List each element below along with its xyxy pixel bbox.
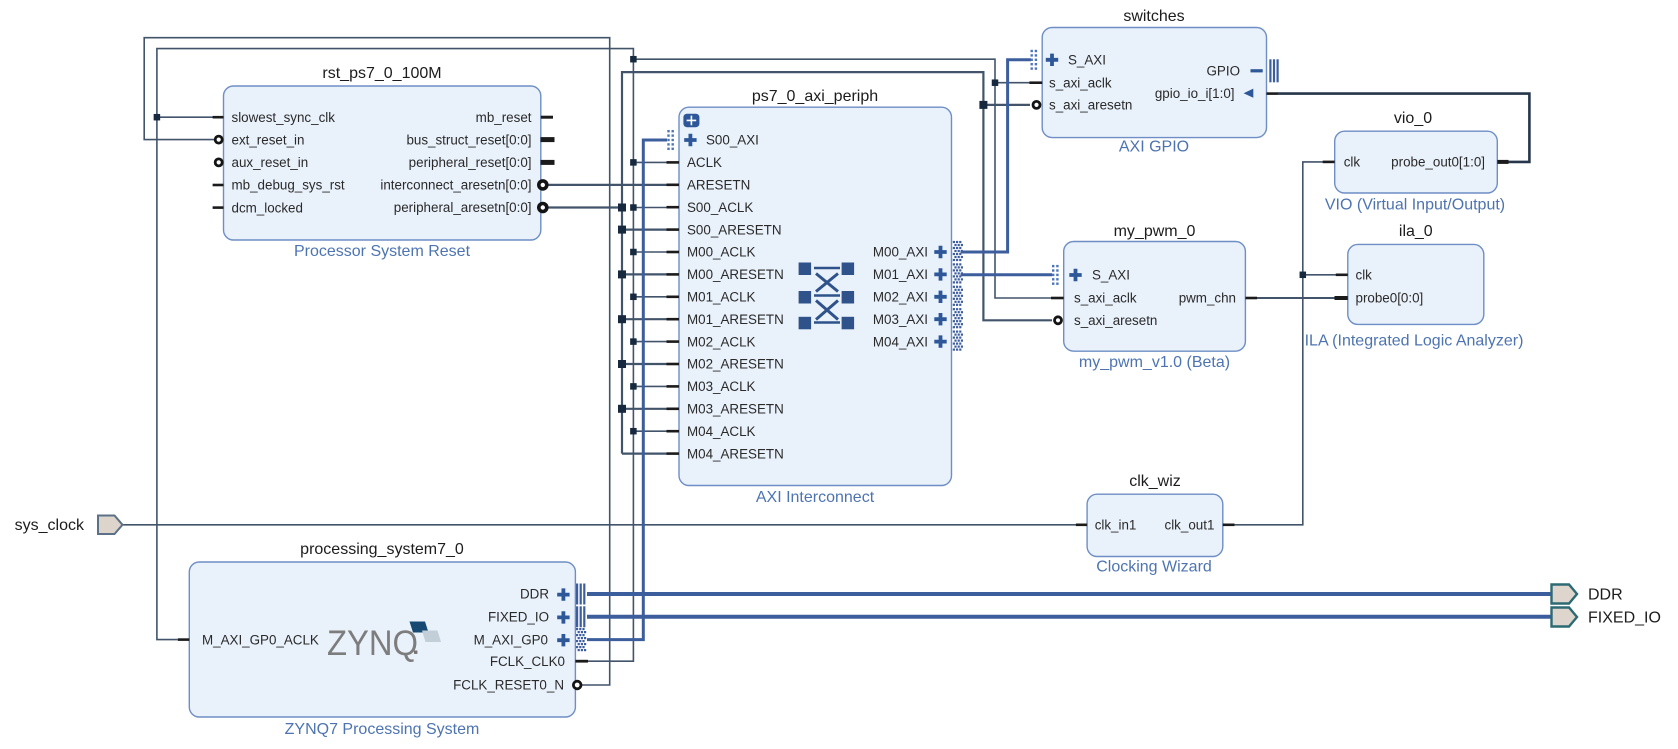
junction M01_ARESETN tap bbox=[618, 315, 626, 323]
port DDR bbox=[1552, 585, 1623, 604]
wire clock branch to M01_ACLK bbox=[633, 296, 667, 298]
svg-text:FCLK_CLK0: FCLK_CLK0 bbox=[490, 654, 565, 669]
wire peripheral_aresetn from rst pin to trunk bbox=[549, 206, 623, 208]
svg-text:S_AXI: S_AXI bbox=[1092, 268, 1130, 283]
wire FIXED_IO interface bus bbox=[587, 615, 1552, 619]
wire FCLK_RESET0_N to rst ext_reset_in bbox=[144, 38, 610, 685]
svg-text:probe0[0:0]: probe0[0:0] bbox=[1356, 291, 1424, 306]
svg-text:M00_ARESETN: M00_ARESETN bbox=[687, 267, 784, 282]
wire clock branch to S00_ACLK bbox=[633, 207, 667, 209]
wire peripheral_aresetn branch to M03_ARESETN bbox=[622, 408, 667, 410]
wire my_pwm pwm_chn to ila_0 probe0 bbox=[1256, 297, 1336, 299]
svg-text:clk: clk bbox=[1344, 155, 1361, 170]
wire clock net east branch to s_axi_aclk pins bbox=[633, 59, 1052, 298]
wire FCLK_CLK0 clock net trunk (FCLK_CLK0 to top-left channel, down to M_AXI_GP0_ACLK) bbox=[157, 49, 634, 662]
junction switches s_axi_aclk tap bbox=[992, 79, 999, 86]
svg-text:DDR: DDR bbox=[1588, 587, 1623, 604]
junction peripheral_aresetn entry bbox=[618, 204, 626, 212]
wire peripheral_aresetn branch to M01_ARESETN bbox=[622, 318, 667, 320]
svg-text:S00_AXI: S00_AXI bbox=[706, 133, 759, 148]
wire clk_wiz clk_out1 to vio_0 clk bbox=[1234, 162, 1323, 525]
wire clock branch to switches s_axi_aclk bbox=[995, 82, 1030, 84]
svg-text:M00_ACLK: M00_ACLK bbox=[687, 245, 756, 260]
junction M03_ARESETN tap bbox=[618, 405, 626, 413]
svg-text:M02_ARESETN: M02_ARESETN bbox=[687, 357, 784, 372]
junction switches s_axi_aresetn tap bbox=[979, 101, 987, 109]
wire peripheral_aresetn branch to switches s_axi_aresetn bbox=[983, 104, 1030, 106]
junction M00_ACLK tap bbox=[630, 249, 637, 256]
wire clock branch to rst slowest_sync_clk bbox=[157, 116, 213, 118]
svg-text:clk: clk bbox=[1356, 268, 1373, 283]
pin S_AXI bbox=[1069, 269, 1081, 281]
wire clock branch to M03_ACLK bbox=[633, 385, 667, 387]
junction clock east branch bbox=[630, 56, 637, 63]
svg-text:probe_out0[1:0]: probe_out0[1:0] bbox=[1391, 155, 1485, 170]
port FIXED_IO bbox=[1552, 608, 1661, 627]
svg-text:peripheral_reset[0:0]: peripheral_reset[0:0] bbox=[409, 155, 532, 170]
axi crossbar icon bbox=[799, 263, 855, 330]
svg-text:bus_struct_reset[0:0]: bus_struct_reset[0:0] bbox=[406, 132, 531, 147]
svg-text:GPIO: GPIO bbox=[1207, 64, 1240, 79]
svg-text:processing_system7_0: processing_system7_0 bbox=[300, 541, 464, 558]
block processing_system7_0 (ZYNQ7 Processing System) bbox=[178, 541, 588, 738]
svg-text:FIXED_IO: FIXED_IO bbox=[488, 610, 549, 625]
svg-text:M04_ACLK: M04_ACLK bbox=[687, 424, 756, 439]
svg-text:switches: switches bbox=[1123, 8, 1184, 25]
svg-text:M00_AXI: M00_AXI bbox=[873, 245, 928, 260]
svg-text:Processor System Reset: Processor System Reset bbox=[294, 243, 471, 260]
svg-text:M01_ARESETN: M01_ARESETN bbox=[687, 312, 784, 327]
svg-text:FIXED_IO: FIXED_IO bbox=[1588, 610, 1661, 627]
junction M00_ARESETN tap bbox=[618, 270, 626, 278]
svg-text:ext_reset_in: ext_reset_in bbox=[232, 132, 305, 147]
svg-text:my_pwm_v1.0 (Beta): my_pwm_v1.0 (Beta) bbox=[1079, 354, 1230, 371]
svg-text:rst_ps7_0_100M: rst_ps7_0_100M bbox=[322, 65, 441, 82]
svg-text:M01_AXI: M01_AXI bbox=[873, 267, 928, 282]
svg-text:my_pwm_0: my_pwm_0 bbox=[1114, 223, 1196, 240]
svg-text:s_axi_aresetn: s_axi_aresetn bbox=[1049, 98, 1132, 113]
svg-text:gpio_io_i[1:0]: gpio_io_i[1:0] bbox=[1155, 86, 1235, 101]
junction ACLK tap bbox=[630, 159, 637, 166]
wire clock branch to M00_ACLK bbox=[633, 251, 667, 253]
svg-text:M04_AXI: M04_AXI bbox=[873, 334, 928, 349]
svg-text:M02_AXI: M02_AXI bbox=[873, 290, 928, 305]
pin S00_AXI bbox=[684, 134, 696, 146]
svg-text:DDR: DDR bbox=[520, 587, 549, 602]
svg-text:s_axi_aresetn: s_axi_aresetn bbox=[1074, 313, 1157, 328]
svg-text:ps7_0_axi_periph: ps7_0_axi_periph bbox=[752, 88, 878, 105]
block switches (AXI GPIO) bbox=[1029, 8, 1278, 156]
svg-text:dcm_locked: dcm_locked bbox=[232, 200, 303, 215]
svg-text:M_AXI_GP0: M_AXI_GP0 bbox=[474, 632, 548, 647]
svg-text:VIO (Virtual Input/Output): VIO (Virtual Input/Output) bbox=[1325, 197, 1505, 214]
svg-text:M01_ACLK: M01_ACLK bbox=[687, 290, 756, 305]
svg-text:clk_out1: clk_out1 bbox=[1165, 518, 1215, 533]
svg-text:s_axi_aclk: s_axi_aclk bbox=[1049, 75, 1112, 90]
svg-text:ILA (Integrated Logic Analyzer: ILA (Integrated Logic Analyzer) bbox=[1305, 333, 1524, 350]
svg-text:M_AXI_GP0_ACLK: M_AXI_GP0_ACLK bbox=[202, 632, 319, 647]
svg-text:pwm_chn: pwm_chn bbox=[1179, 291, 1236, 306]
svg-text:M04_ARESETN: M04_ARESETN bbox=[687, 446, 784, 461]
svg-text:M02_ACLK: M02_ACLK bbox=[687, 334, 756, 349]
svg-text:ACLK: ACLK bbox=[687, 155, 722, 170]
wire clock branch to axi interconnect ACLK bbox=[633, 161, 667, 163]
block rst_ps7_0_100M (Processor System Reset) bbox=[213, 65, 555, 260]
wire M_AXI_GP0 bus to S00_AXI bbox=[587, 140, 667, 640]
junction M02_ACLK tap bbox=[630, 338, 637, 345]
wire M01_AXI bus to my_pwm S_AXI bbox=[961, 273, 1053, 276]
wire gpio_io_i[1:0] to vio probe_out0[1:0] bbox=[1277, 94, 1529, 162]
block my_pwm_0 (my_pwm_v1.0 Beta) bbox=[1051, 223, 1257, 371]
svg-text:ila_0: ila_0 bbox=[1399, 223, 1433, 240]
svg-text:AXI GPIO: AXI GPIO bbox=[1119, 139, 1189, 156]
junction M01_ACLK tap bbox=[630, 294, 637, 301]
svg-text:vio_0: vio_0 bbox=[1394, 110, 1432, 127]
svg-text:mb_reset: mb_reset bbox=[476, 110, 532, 125]
block ila_0 (Integrated Logic Analyzer) bbox=[1305, 223, 1524, 350]
pin S_AXI bbox=[1046, 54, 1058, 66]
block vio_0 (VIO Virtual Input/Output) bbox=[1323, 110, 1509, 214]
wire clock branch to M02_ACLK bbox=[633, 341, 667, 343]
wire clock branch to ila_0 clk bbox=[1303, 274, 1336, 276]
junction M02_ARESETN tap bbox=[618, 360, 626, 368]
svg-text:ZYNQ: ZYNQ bbox=[327, 624, 418, 663]
svg-text:S00_ARESETN: S00_ARESETN bbox=[687, 222, 782, 237]
svg-text:peripheral_aresetn[0:0]: peripheral_aresetn[0:0] bbox=[394, 200, 532, 215]
junction ila clk tap bbox=[1300, 272, 1307, 279]
svg-text:AXI Interconnect: AXI Interconnect bbox=[756, 489, 875, 506]
svg-text:sys_clock: sys_clock bbox=[15, 517, 85, 534]
wire DDR interface bus bbox=[587, 592, 1552, 596]
block clk_wiz (Clocking Wizard) bbox=[1076, 473, 1235, 576]
svg-text:Clocking Wizard: Clocking Wizard bbox=[1096, 559, 1212, 576]
junction slowest_sync_clk tap bbox=[154, 114, 161, 121]
svg-text:interconnect_aresetn[0:0]: interconnect_aresetn[0:0] bbox=[380, 178, 531, 193]
wire peripheral_aresetn branch to M00_ARESETN bbox=[622, 273, 667, 275]
svg-text:clk_in1: clk_in1 bbox=[1095, 518, 1137, 533]
svg-text:slowest_sync_clk: slowest_sync_clk bbox=[232, 110, 336, 125]
svg-text:FCLK_RESET0_N: FCLK_RESET0_N bbox=[453, 678, 564, 693]
block ps7_0_axi_periph (AXI Interconnect) bbox=[667, 88, 964, 506]
wire peripheral_aresetn branch to S00_ARESETN bbox=[622, 229, 667, 231]
svg-text:S_AXI: S_AXI bbox=[1068, 53, 1106, 68]
wire M00_AXI bus to switches S_AXI bbox=[961, 60, 1032, 252]
svg-text:M03_ACLK: M03_ACLK bbox=[687, 379, 756, 394]
svg-text:M03_ARESETN: M03_ARESETN bbox=[687, 402, 784, 417]
wire peripheral_aresetn branch to M02_ARESETN bbox=[622, 363, 667, 365]
svg-text:s_axi_aclk: s_axi_aclk bbox=[1074, 291, 1137, 306]
port sys_clock bbox=[15, 516, 123, 535]
wire sys_clock to clk_wiz clk_in1 bbox=[123, 524, 1077, 526]
junction M03_ACLK tap bbox=[630, 383, 637, 390]
svg-text:ZYNQ7 Processing System: ZYNQ7 Processing System bbox=[285, 721, 480, 738]
wire peripheral_aresetn trunk bbox=[622, 72, 1052, 454]
junction S00_ARESETN tap bbox=[618, 226, 626, 234]
wire peripheral_aresetn branch to M04_ARESETN bbox=[622, 453, 667, 455]
wire clock branch to M04_ACLK bbox=[633, 430, 667, 432]
svg-text:clk_wiz: clk_wiz bbox=[1129, 473, 1181, 490]
wire interconnect_aresetn to ARESETN (1-bit vector, thicker) bbox=[549, 184, 668, 186]
junction S00_ACLK tap bbox=[630, 204, 637, 211]
svg-text:mb_debug_sys_rst: mb_debug_sys_rst bbox=[232, 178, 345, 193]
svg-text:aux_reset_in: aux_reset_in bbox=[232, 155, 309, 170]
svg-text:ARESETN: ARESETN bbox=[687, 178, 750, 193]
svg-text:M03_AXI: M03_AXI bbox=[873, 312, 928, 327]
expand button bbox=[683, 114, 699, 128]
svg-text:S00_ACLK: S00_ACLK bbox=[687, 200, 753, 215]
junction M04_ACLK tap bbox=[630, 428, 637, 435]
